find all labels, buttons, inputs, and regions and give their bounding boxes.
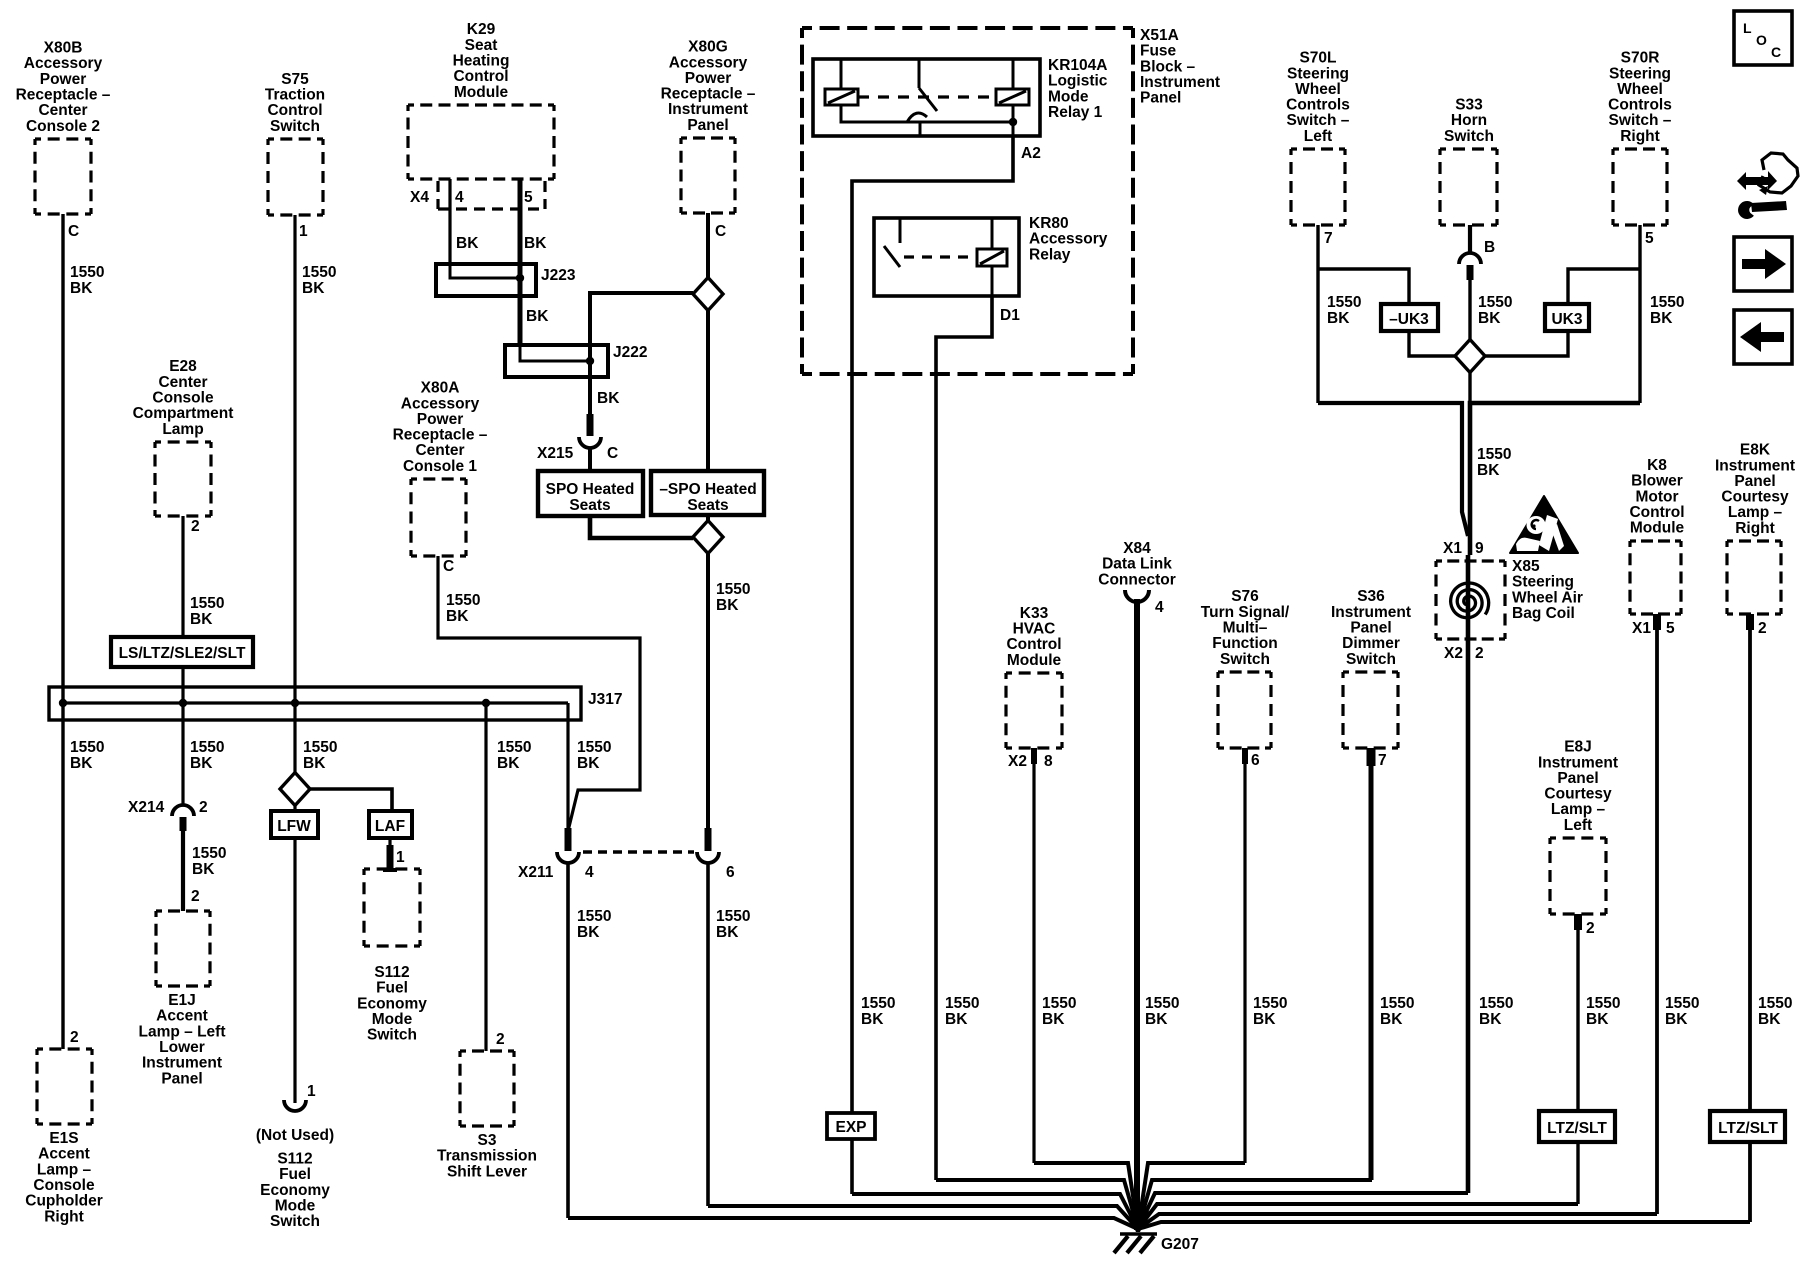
wire S76 bottom run to G207	[1138, 1163, 1245, 1229]
wire S33 to splice diamond, 1550 BK	[1468, 280, 1471, 340]
relay KR104A Logistic Mode Relay 1	[813, 59, 1040, 136]
svg-text:BK: BK	[524, 235, 547, 252]
svg-text:6: 6	[1251, 752, 1260, 769]
wire X80A-C joining X211 pin 4, 1550 BK	[438, 556, 640, 831]
wire K33 to G207, 1550 BK	[1032, 748, 1035, 1163]
coil X85 Steering Wheel Air Bag Coil	[1436, 559, 1505, 562]
connector half-circle at S112 (Not Used)	[284, 1100, 306, 1111]
wire E8K bottom run to G207	[1138, 1222, 1750, 1229]
svg-text:X2: X2	[1008, 753, 1027, 770]
junction dot in J222	[586, 357, 594, 365]
svg-text:7: 7	[1324, 230, 1333, 247]
splice diamond below -SPO	[693, 521, 723, 554]
wire X214 to E1J, 1550 BK	[181, 831, 185, 911]
svg-text:O: O	[1756, 32, 1767, 48]
svg-text:LTZ/SLT: LTZ/SLT	[1547, 1120, 1607, 1137]
pin stub S76	[1242, 748, 1248, 764]
wire junction bar left branch down to X85	[1318, 403, 1468, 536]
icon left arrow box	[1734, 310, 1792, 364]
wire J317 right end down to X211 pin 4, 1550 BK	[566, 703, 569, 831]
switch S70L Steering Wheel Controls Switch - Left	[1291, 147, 1345, 150]
wire KR104A coil output	[1012, 105, 1015, 136]
svg-text:J223: J223	[541, 267, 576, 284]
wire E8K to G207, 1550 BK	[1748, 614, 1752, 1222]
airbag warning triangle	[1510, 496, 1578, 553]
splice diamond above LFW	[280, 773, 310, 806]
wire branch to -UK3	[1318, 269, 1409, 304]
svg-text:X215: X215	[537, 445, 574, 462]
svg-text:5: 5	[524, 189, 533, 206]
relay switch post KR80	[899, 218, 902, 243]
pin stub below X214	[180, 817, 187, 831]
wire diamond to LFW	[293, 805, 296, 811]
switch S33 Horn Switch	[1440, 147, 1497, 150]
wire through J222	[588, 345, 592, 377]
connector half-circle X84	[1125, 590, 1149, 602]
svg-text:BK: BK	[597, 390, 620, 407]
lamp E8K Instrument Panel Courtesy Lamp - Right	[1727, 539, 1781, 542]
wire diamond to X211 pin 6, 1550 BK	[706, 554, 710, 834]
svg-text:C: C	[68, 223, 79, 240]
wire X211-6 bottom run to G207	[708, 1206, 1138, 1229]
svg-text:4: 4	[585, 864, 594, 881]
wire X80B through J317	[61, 687, 64, 719]
svg-text:J317: J317	[588, 691, 622, 708]
svg-text:4: 4	[455, 189, 464, 206]
option box SPO Heated Seats	[538, 471, 643, 516]
bus bar inside J317	[63, 701, 568, 704]
svg-text:4: 4	[1155, 599, 1164, 616]
pin stub LAF to S112	[387, 845, 394, 869]
wire KR104A coil to output	[841, 105, 1013, 122]
svg-text:C: C	[443, 558, 454, 575]
connector half-circle X215	[579, 437, 601, 448]
splice J223	[436, 264, 536, 296]
pin stub above X211 pin 6	[705, 828, 712, 851]
svg-text:(Not Used): (Not Used)	[256, 1127, 334, 1144]
pin stub E8K	[1746, 614, 1754, 630]
wire KR80-D1 down out of fuse block	[936, 296, 992, 374]
svg-text:2: 2	[199, 799, 208, 816]
wire X211-4 to G207, 1550 BK	[566, 863, 570, 1218]
wire inside J222	[520, 345, 590, 361]
svg-text:BK: BK	[526, 308, 549, 325]
svg-text:5: 5	[1666, 620, 1675, 637]
wire S36 to G207, 1550 BK	[1369, 748, 1374, 1180]
pin stub K33	[1031, 748, 1037, 764]
connector X80B Accessory Power Receptacle - Center Console 2	[35, 137, 91, 140]
svg-text:9: 9	[1475, 540, 1484, 557]
svg-text:KR104ALogisticModeRelay 1: KR104ALogisticModeRelay 1	[1048, 57, 1108, 121]
module K29 Seat Heating Control Module	[408, 103, 554, 106]
svg-text:LTZ/SLT: LTZ/SLT	[1718, 1120, 1778, 1137]
wire X215 to SPO Heated Seats	[588, 448, 592, 472]
wire LS/LTZ box to J317	[181, 667, 184, 687]
svg-text:2: 2	[191, 888, 200, 905]
junction dot J317 x=486	[482, 699, 490, 707]
svg-text:6: 6	[726, 864, 735, 881]
coil right of KR104A	[996, 89, 1029, 105]
svg-text:C: C	[1771, 44, 1781, 60]
wire through J223	[518, 264, 523, 296]
svg-text:2: 2	[496, 1031, 505, 1048]
connector half-circle X214	[172, 805, 194, 816]
relay switch arm KR104A	[919, 88, 937, 111]
connector half-circle X211 pin 4	[557, 852, 579, 863]
wire LFW to S112 (Not Used)	[293, 838, 296, 1103]
svg-text:C: C	[607, 445, 618, 462]
lamp E1S Accent Lamp - Console Cupholder Right	[37, 1047, 92, 1050]
wire J222 to X215, BK	[588, 377, 592, 420]
option box LS/LTZ/SLE2/SLT	[111, 637, 253, 667]
wire X85 bottom run to G207	[1138, 1193, 1468, 1229]
wire X80B-C to E1S, 1550 BK	[61, 214, 64, 1049]
wire branch to UK3	[1568, 269, 1640, 304]
module K8 Blower Motor Control Module	[1630, 539, 1681, 542]
wire X211-6 to G207, 1550 BK	[706, 863, 710, 1206]
wire S75-1 to splice diamond, 1550 BK	[293, 215, 296, 773]
option box -SPO Heated Seats	[651, 471, 764, 515]
svg-text:X211: X211	[518, 864, 554, 881]
wire E8J bottom run to G207	[1138, 1204, 1578, 1229]
coil of KR80	[977, 249, 1007, 266]
option box UK3	[1545, 304, 1589, 331]
wire LAF to S112 pin 1	[388, 838, 391, 869]
pin stub E8J	[1574, 914, 1582, 930]
connector X80A Accessory Power Receptacle - Center Console 1	[411, 477, 466, 480]
icon hand with wrench	[1737, 171, 1777, 190]
option box LTZ/SLT right	[1710, 1111, 1785, 1142]
svg-text:2: 2	[70, 1029, 79, 1046]
relay contact hook KR104A	[907, 113, 927, 122]
switch S36 Instrument Panel Dimmer Switch	[1343, 670, 1398, 673]
switch S112 Fuel Economy Mode Switch	[364, 867, 420, 870]
fuse block X51A outline	[802, 26, 1133, 30]
wire KR104A right coil feed	[1012, 59, 1015, 89]
dashed actuator link KR104A	[858, 95, 996, 98]
wire S76 to G207, 1550 BK	[1243, 748, 1246, 1163]
wire X80G-C to splice diamond	[706, 213, 710, 278]
wire diamond to junction	[1468, 373, 1471, 403]
wire E28 through J317	[181, 687, 184, 719]
wire K8 to G207, 1550 BK	[1655, 614, 1659, 1214]
wire X85-2 to G207, 1550 BK	[1466, 639, 1471, 1193]
pin stub above X215	[587, 414, 594, 436]
svg-text:EXP: EXP	[835, 1119, 866, 1136]
svg-text:8: 8	[1044, 753, 1053, 770]
wire A2 to EXP, 1550 BK	[850, 374, 854, 1113]
wire K29 pin 4 to J223, BK	[448, 179, 451, 264]
dashed connector link X211	[583, 850, 694, 853]
svg-text:X4: X4	[410, 189, 429, 206]
svg-text:X214: X214	[128, 799, 165, 816]
svg-text:LS/LTZ/SLE2/SLT: LS/LTZ/SLE2/SLT	[119, 645, 246, 662]
switch S3 Transmission Shift Lever	[460, 1049, 514, 1052]
svg-text:LAF: LAF	[375, 818, 405, 835]
svg-text:UK3: UK3	[1551, 311, 1582, 328]
wire KR80 coil output	[991, 266, 994, 296]
coil left of KR104A	[825, 89, 858, 105]
connector strip X4 of K29	[438, 181, 545, 209]
option box EXP	[827, 1113, 875, 1139]
svg-text:2: 2	[1758, 620, 1767, 637]
wire J317 to S3, 1550 BK	[484, 703, 487, 1051]
svg-text:D1: D1	[1000, 307, 1020, 324]
wire J223 to J222, BK	[518, 296, 523, 345]
icon LOC box	[1734, 11, 1792, 65]
dashed actuator link KR80	[904, 255, 977, 258]
wire -SPO box to splice diamond	[706, 515, 710, 521]
pin stub above X211 pin 4	[565, 828, 572, 851]
relay output post KR104A	[919, 121, 922, 136]
svg-text:BK: BK	[456, 235, 479, 252]
option box LAF	[369, 811, 412, 838]
wire KR104A-A2 down out of fuse block	[852, 136, 1013, 374]
svg-text:2: 2	[1586, 920, 1595, 937]
svg-text:1: 1	[299, 223, 308, 240]
svg-text:L: L	[1743, 20, 1752, 36]
option box LFW	[271, 811, 318, 838]
wire KR104A left coil feed	[840, 59, 843, 88]
ground junction blob at G207	[1127, 1211, 1149, 1232]
lamp E1J Accent Lamp - Left Lower Instrument Panel	[156, 909, 210, 912]
connector half-circle X211 pin 6	[697, 852, 719, 863]
svg-text:B: B	[1484, 239, 1495, 256]
wire -UK3 to splice diamond	[1409, 331, 1455, 356]
junction dot J317 x=63	[59, 699, 67, 707]
pin stub K8	[1653, 614, 1661, 630]
svg-text:7: 7	[1378, 752, 1387, 769]
pin stub S36	[1367, 748, 1376, 766]
wire J317 to X214, 1550 BK	[181, 719, 184, 805]
connector half-circle at S33 pin B	[1459, 253, 1481, 264]
splice diamond X80G/J222	[693, 278, 723, 311]
pin stub below S33-B	[1467, 265, 1474, 280]
svg-text:2: 2	[1475, 645, 1484, 662]
switch S70R Steering Wheel Controls Switch - Right	[1613, 147, 1667, 150]
wire diamond to -SPO Heated Seats	[706, 311, 710, 471]
svg-text:1: 1	[307, 1083, 316, 1100]
option box LTZ/SLT left	[1539, 1111, 1615, 1142]
splice diamond horn/UK3	[1455, 340, 1485, 373]
wire inside J223	[450, 264, 520, 278]
wire through X85	[1466, 555, 1471, 639]
module K33 HVAC Control Module	[1006, 671, 1062, 674]
wire K8 bottom run to G207	[1138, 1214, 1657, 1229]
wire diamond to LAF	[310, 789, 392, 811]
wire KR80 coil feed	[991, 218, 994, 249]
wire EXP bottom run to G207	[852, 1194, 1138, 1229]
wire S70R-5 down, 1550 BK	[1638, 225, 1641, 403]
clockspring spiral of X85	[1451, 583, 1489, 618]
wire X84 to G207, 1550 BK	[1134, 599, 1140, 1230]
icon right arrow box	[1734, 237, 1792, 291]
relay KR80 Accessory Relay	[874, 218, 1019, 296]
wire K29 pin 5 to J223, BK	[518, 179, 523, 264]
wire X211-4 bottom run to G207	[568, 1218, 1138, 1229]
svg-text:A2: A2	[1021, 145, 1041, 162]
svg-text:X1: X1	[1443, 540, 1462, 557]
relay switch post KR104A	[918, 59, 921, 88]
junction dot in KR104A	[1009, 118, 1017, 126]
svg-text:J222: J222	[613, 344, 647, 361]
lamp E8J Instrument Panel Courtesy Lamp - Left	[1550, 836, 1606, 839]
wire S70L-7 down, 1550 BK	[1316, 225, 1319, 403]
splice pack J317	[49, 687, 581, 720]
wire E8J to G207, 1550 BK	[1576, 914, 1579, 1204]
lamp E28 Center Console Compartment Lamp	[155, 440, 211, 443]
option box -UK3	[1381, 304, 1438, 331]
wire S36 bottom run to G207	[1138, 1180, 1372, 1229]
wire S33-B	[1468, 225, 1472, 253]
wire junction bar right branch to X85 pin 9, 1550 BK	[1470, 403, 1640, 555]
svg-text:5: 5	[1645, 230, 1654, 247]
wire D1 bottom run to G207	[936, 1180, 1138, 1229]
svg-text:–UK3: –UK3	[1389, 311, 1429, 328]
relay switch arm KR80	[884, 246, 900, 267]
svg-text:G207: G207	[1161, 1236, 1199, 1253]
junction dot J317 x=183	[179, 699, 187, 707]
wire UK3 to splice diamond	[1485, 331, 1568, 356]
wire S75 through J317	[293, 687, 296, 719]
wire D1 to G207, 1550 BK	[934, 374, 938, 1180]
svg-text:C: C	[715, 223, 726, 240]
junction dot J317 x=295	[291, 699, 299, 707]
wire K33 bottom run to G207	[1034, 1163, 1138, 1229]
connector X80G Accessory Power Receptacle - Instrument Panel	[681, 136, 735, 139]
wire SPO box to splice diamond below -SPO	[590, 516, 693, 538]
splice J222	[505, 345, 608, 377]
junction dot in J223	[516, 274, 524, 282]
svg-text:LFW: LFW	[277, 818, 311, 835]
svg-text:X1: X1	[1632, 620, 1651, 637]
wire E28-2 to LS/LTZ box, 1550 BK	[181, 516, 184, 637]
switch S75 Traction Control Switch	[268, 137, 323, 140]
svg-text:1: 1	[396, 849, 405, 866]
wire J222 up to splice diamond at X80G	[590, 293, 693, 345]
wire EXP to G207	[850, 1139, 854, 1194]
svg-text:2: 2	[191, 518, 200, 535]
switch S76 Turn Signal/Multi-Function Switch	[1218, 670, 1271, 673]
svg-text:X2: X2	[1444, 645, 1463, 662]
ground G207	[1120, 1232, 1157, 1236]
